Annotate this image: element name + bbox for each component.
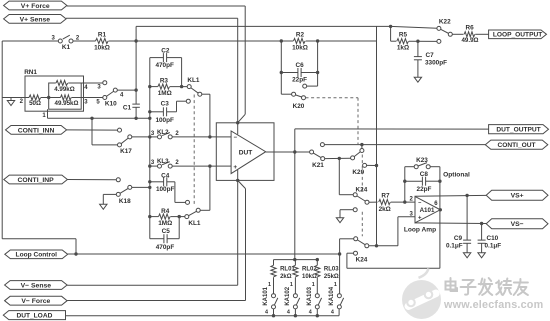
svg-text:C4: C4 xyxy=(161,173,170,180)
svg-text:VS+: VS+ xyxy=(511,193,524,200)
svg-text:C7: C7 xyxy=(426,52,435,59)
svg-text:4: 4 xyxy=(309,310,312,316)
svg-text:CONTI_OUT: CONTI_OUT xyxy=(497,142,535,149)
svg-text:1: 1 xyxy=(334,282,337,288)
svg-text:Loop Control: Loop Control xyxy=(16,252,58,259)
svg-text:DUT_OUTPUT: DUT_OUTPUT xyxy=(496,127,540,134)
svg-text:K22: K22 xyxy=(439,19,451,26)
svg-text:3300pF: 3300pF xyxy=(425,59,447,66)
svg-text:0.1μF: 0.1μF xyxy=(485,242,502,249)
svg-text:470pF: 470pF xyxy=(155,62,174,69)
svg-text:LOOP_OUTPUT: LOOP_OUTPUT xyxy=(493,32,542,39)
svg-text:10kΩ: 10kΩ xyxy=(292,45,308,52)
svg-text:4: 4 xyxy=(331,310,334,316)
svg-text:DUT_LOAD: DUT_LOAD xyxy=(16,313,52,320)
svg-text:1: 1 xyxy=(312,282,315,288)
svg-text:−: − xyxy=(234,135,238,141)
svg-text:V− Sense: V− Sense xyxy=(21,282,52,289)
svg-text:100pF: 100pF xyxy=(156,186,175,193)
svg-text:V+ Sense: V+ Sense xyxy=(20,16,51,23)
svg-text:K1: K1 xyxy=(62,44,71,51)
svg-text:25kΩ: 25kΩ xyxy=(324,274,339,280)
svg-text:RL02: RL02 xyxy=(302,267,317,273)
svg-text:C8: C8 xyxy=(420,171,429,178)
svg-text:R5: R5 xyxy=(399,32,408,39)
svg-text:1kΩ: 1kΩ xyxy=(397,45,409,52)
svg-text:K24: K24 xyxy=(356,187,368,194)
svg-text:www.elecfans.com: www.elecfans.com xyxy=(443,299,543,311)
svg-text:Optional: Optional xyxy=(443,172,470,179)
svg-text:K21: K21 xyxy=(312,162,324,169)
svg-text:1MΩ: 1MΩ xyxy=(158,90,172,97)
svg-text:C3: C3 xyxy=(161,101,170,108)
svg-text:RL01: RL01 xyxy=(280,267,295,273)
svg-text:K23: K23 xyxy=(416,157,428,164)
svg-text:22pF: 22pF xyxy=(292,77,307,84)
svg-text:4: 4 xyxy=(265,310,268,316)
svg-text:K24: K24 xyxy=(356,256,368,263)
svg-text:CONTI_INN: CONTI_INN xyxy=(18,127,55,134)
svg-text:100pF: 100pF xyxy=(155,117,174,124)
svg-text:C10: C10 xyxy=(487,235,499,242)
svg-text:KL2: KL2 xyxy=(157,129,169,136)
svg-text:50Ω: 50Ω xyxy=(29,100,41,107)
svg-text:KL1: KL1 xyxy=(187,77,200,84)
svg-text:R4: R4 xyxy=(161,208,170,215)
svg-text:V+ Force: V+ Force xyxy=(21,3,50,10)
svg-text:49.9Ω: 49.9Ω xyxy=(461,37,478,44)
svg-text:K17: K17 xyxy=(120,148,132,155)
svg-text:R3: R3 xyxy=(160,77,169,84)
svg-text:1: 1 xyxy=(268,282,271,288)
svg-text:49.95kΩ: 49.95kΩ xyxy=(55,100,79,107)
svg-text:C2: C2 xyxy=(161,47,170,54)
svg-text:RL03: RL03 xyxy=(324,267,339,273)
svg-text:470pF: 470pF xyxy=(156,244,175,251)
svg-text:R1: R1 xyxy=(98,32,107,39)
svg-text:K20: K20 xyxy=(293,103,305,110)
svg-text:4: 4 xyxy=(287,310,290,316)
svg-text:K18: K18 xyxy=(119,198,131,205)
svg-text:1: 1 xyxy=(290,282,293,288)
svg-text:1MΩ: 1MΩ xyxy=(158,220,172,227)
svg-text:R6: R6 xyxy=(466,25,475,32)
svg-text:V− Force: V− Force xyxy=(21,298,50,305)
svg-text:10kΩ: 10kΩ xyxy=(94,45,110,52)
svg-text:C1: C1 xyxy=(123,105,132,112)
svg-text:KL3: KL3 xyxy=(157,158,169,165)
svg-text:C9: C9 xyxy=(454,235,463,242)
svg-text:+: + xyxy=(418,215,422,221)
svg-text:+: + xyxy=(233,164,237,171)
svg-text:KL1: KL1 xyxy=(188,220,201,227)
svg-text:0.1μF: 0.1μF xyxy=(446,242,463,249)
svg-text:Loop Amp: Loop Amp xyxy=(404,227,436,234)
svg-text:R2: R2 xyxy=(296,32,305,39)
svg-text:KA102: KA102 xyxy=(285,286,291,305)
svg-text:DUT: DUT xyxy=(239,150,253,157)
svg-text:K10: K10 xyxy=(105,100,117,107)
svg-text:KA104: KA104 xyxy=(329,286,335,305)
svg-text:VS−: VS− xyxy=(511,221,524,228)
svg-text:2kΩ: 2kΩ xyxy=(280,274,292,280)
svg-text:C6: C6 xyxy=(296,62,305,69)
svg-text:A101: A101 xyxy=(420,207,435,214)
svg-text:22pF: 22pF xyxy=(417,186,432,193)
svg-text:KA103: KA103 xyxy=(307,286,313,305)
svg-text:R7: R7 xyxy=(381,193,390,200)
svg-text:10kΩ: 10kΩ xyxy=(302,274,317,280)
svg-text:RN1: RN1 xyxy=(24,69,37,76)
svg-text:CONTI_INP: CONTI_INP xyxy=(17,177,54,184)
svg-text:4.99kΩ: 4.99kΩ xyxy=(54,86,74,93)
svg-text:C5: C5 xyxy=(162,228,171,235)
svg-text:2kΩ: 2kΩ xyxy=(379,206,391,213)
svg-text:KA101: KA101 xyxy=(263,286,269,305)
